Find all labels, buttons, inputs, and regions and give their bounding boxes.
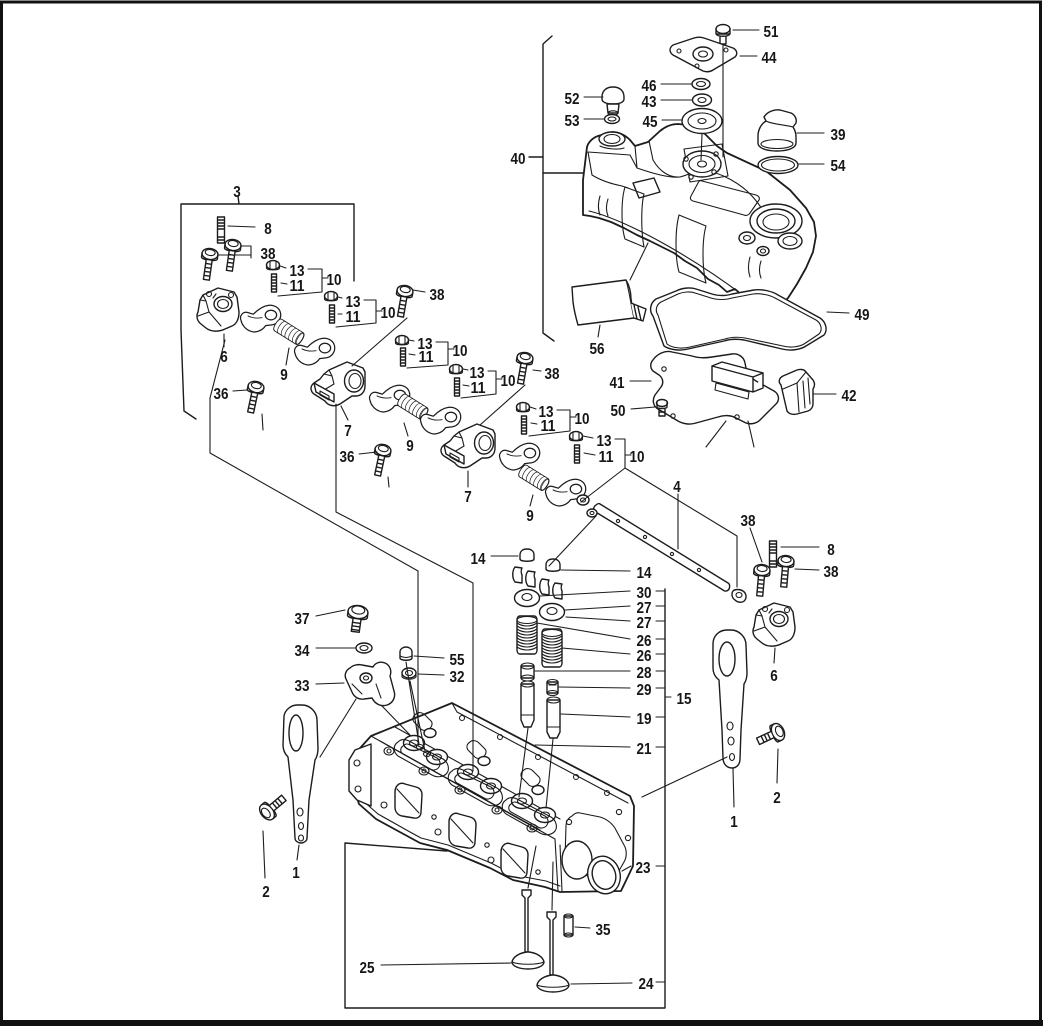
svg-text:29: 29: [637, 682, 652, 699]
svg-text:41: 41: [610, 375, 625, 392]
leader g6 to shaft: [581, 468, 737, 587]
svg-text:9: 9: [406, 438, 414, 455]
cover top-right filler ring: [750, 204, 802, 238]
valve pad ring a2: [427, 750, 448, 765]
valve guide 21: [521, 684, 534, 727]
svg-text:36: 36: [214, 386, 229, 403]
svg-text:9: 9: [280, 367, 288, 384]
valve pad ring b2: [481, 779, 502, 794]
leader 27 b: [566, 617, 630, 621]
leader 1 left: [297, 845, 299, 860]
svg-text:38: 38: [545, 366, 560, 383]
keepers 14 b: [540, 579, 562, 599]
svg-text:11: 11: [599, 449, 614, 466]
stem seal 29: [547, 682, 558, 693]
svg-text:38: 38: [261, 246, 276, 263]
leader 52: [584, 96, 603, 98]
assembly leader 7: [336, 404, 473, 771]
shaft guide line: [549, 516, 596, 566]
spring washer 27 a: [540, 604, 565, 621]
cover centre boss rings: [683, 151, 721, 177]
leader 9 c: [530, 495, 533, 506]
valve pad ring b1: [458, 765, 479, 780]
svg-text:43: 43: [642, 94, 657, 111]
bolt 38 d: [513, 351, 534, 385]
svg-text:34: 34: [295, 643, 310, 660]
head bottom wall line: [362, 800, 560, 886]
nut 13 g2: [325, 292, 338, 301]
leader 36 a: [233, 390, 263, 430]
deck pad a: [413, 713, 432, 731]
bolt 2 left: [257, 791, 290, 823]
svg-text:51: 51: [764, 24, 779, 41]
svg-text:56: 56: [590, 341, 605, 358]
svg-text:1: 1: [292, 865, 300, 882]
leader 54: [799, 163, 824, 165]
svg-text:1: 1: [730, 814, 738, 831]
deck pad c: [521, 769, 540, 787]
valve spring 26 b: [542, 629, 562, 667]
svg-text:55: 55: [450, 652, 465, 669]
spring retainer 30: [515, 590, 540, 607]
diaphragm 45: [682, 109, 722, 134]
svg-text:6: 6: [220, 349, 228, 366]
filler cap 39: [758, 110, 796, 151]
rocker arm G3 R: [546, 479, 586, 506]
svg-text:11: 11: [346, 309, 361, 326]
leader 8 right: [781, 546, 819, 548]
pedestal 7 b: [441, 424, 495, 468]
cover centre boss pad: [684, 144, 728, 182]
intake port 1: [395, 783, 422, 818]
valve 24: [547, 912, 556, 975]
rocker arm G2 R: [421, 407, 461, 434]
runner outline c: [502, 798, 556, 835]
valve spring 9 a: [272, 318, 306, 346]
cover front flutes: [599, 196, 609, 216]
svg-text:11: 11: [290, 278, 305, 295]
tube nozzle 56: [631, 303, 646, 321]
leader 25: [381, 963, 511, 965]
screw 11 g3: [401, 348, 406, 366]
leader 50: [631, 407, 655, 409]
svg-text:42: 42: [842, 388, 857, 405]
leader 42: [813, 393, 836, 395]
exhaust flange: [349, 744, 371, 806]
baffle box: [712, 362, 763, 392]
leader 14 b: [561, 570, 630, 571]
cylinder head body: [352, 703, 634, 892]
bracket 15: [345, 589, 665, 1008]
bolt 37: [345, 604, 368, 633]
leader 38 pair: [218, 246, 251, 258]
sealant tube 56: [572, 280, 634, 325]
leaders 55-32 to head: [406, 662, 425, 751]
svg-text:23: 23: [636, 860, 651, 877]
shaft end bush: [587, 509, 597, 517]
svg-text:10: 10: [381, 305, 396, 322]
valve cap 14 b: [546, 559, 560, 571]
bolt 38 f: [776, 555, 795, 588]
injector boss b: [478, 757, 490, 766]
valve 25: [522, 890, 531, 952]
o-ring 54: [758, 157, 798, 174]
deck pad b: [467, 741, 486, 759]
leader 53: [584, 118, 604, 120]
svg-text:28: 28: [637, 665, 652, 682]
svg-text:26: 26: [637, 648, 652, 665]
bolt 38 e: [752, 564, 771, 597]
leader 30: [540, 591, 630, 596]
leader 51-44 stack: [701, 44, 723, 160]
svg-text:45: 45: [643, 114, 658, 131]
svg-text:38: 38: [824, 564, 839, 581]
leader 56: [598, 325, 600, 337]
cap nut 55: [400, 647, 412, 660]
assembly leader 3: [210, 340, 418, 744]
bolt 36 a: [243, 380, 265, 414]
head front upper line: [353, 748, 371, 767]
svg-text:10: 10: [575, 411, 590, 428]
bolt 50: [657, 400, 668, 407]
svg-text:6: 6: [770, 668, 778, 685]
bolt 38 a: [198, 247, 218, 280]
leader 7 a: [341, 406, 348, 420]
washer 34: [356, 643, 372, 653]
screw 11 g5: [522, 416, 527, 434]
cover raised panel: [690, 181, 759, 216]
svg-text:2: 2: [773, 790, 781, 807]
svg-text:14: 14: [637, 565, 652, 582]
cover top deck line: [588, 141, 768, 222]
svg-text:54: 54: [831, 158, 846, 175]
cover skirt line: [588, 152, 744, 296]
breather plate 44: [670, 37, 737, 71]
svg-text:36: 36: [340, 449, 355, 466]
valve spring 26 a: [517, 616, 537, 654]
svg-text:25: 25: [360, 960, 375, 977]
svg-text:50: 50: [611, 403, 626, 420]
nut 13 g5: [517, 403, 530, 412]
svg-text:10: 10: [327, 272, 342, 289]
gasket 49: [651, 288, 826, 350]
leader 4: [677, 494, 679, 549]
shaft end cap: [732, 590, 746, 603]
leader 36 b: [359, 452, 389, 487]
bracket 40: [543, 36, 554, 341]
stud 8: [218, 217, 225, 243]
leader 21: [535, 745, 630, 747]
cover left deck ring shadow: [600, 146, 624, 149]
svg-text:35: 35: [596, 922, 611, 939]
head deck step: [380, 727, 560, 830]
valve pad ring a1: [404, 736, 425, 751]
leader 38 e: [750, 528, 762, 562]
leader 35: [575, 927, 590, 928]
svg-text:38: 38: [741, 513, 756, 530]
leader 45: [662, 119, 681, 121]
svg-text:33: 33: [295, 678, 310, 695]
bracket g5: [529, 407, 576, 436]
leader 46: [661, 83, 692, 85]
nut 13 g3: [396, 336, 409, 345]
baffle leaders: [706, 421, 754, 447]
leader 49: [827, 312, 849, 313]
valve spring 9 b: [396, 393, 430, 421]
head top near edge: [371, 736, 558, 891]
svg-text:49: 49: [855, 307, 870, 324]
svg-text:44: 44: [762, 50, 777, 67]
leader 29: [559, 687, 630, 688]
svg-text:11: 11: [471, 380, 486, 397]
svg-text:13: 13: [597, 433, 612, 450]
leader 32: [418, 674, 444, 675]
washer 43: [693, 94, 712, 106]
intake port 3: [501, 843, 528, 878]
leader 8 left: [228, 226, 255, 227]
svg-text:7: 7: [344, 423, 352, 440]
bolt 38 c: [393, 284, 414, 318]
baffle plate 41: [651, 351, 779, 424]
svg-text:11: 11: [419, 349, 434, 366]
head top rear edge: [452, 703, 628, 803]
bracket g1: [278, 266, 328, 296]
svg-text:32: 32: [450, 669, 465, 686]
svg-text:27: 27: [637, 615, 652, 632]
rocker arm G2 L: [370, 385, 410, 412]
svg-text:38: 38: [430, 287, 445, 304]
leader 33: [316, 683, 344, 684]
leader 26 a: [537, 623, 630, 639]
cover left cap boss ring: [599, 132, 625, 146]
bolt 38 b: [221, 238, 241, 271]
eye slot right: [719, 642, 735, 676]
water jacket circle: [562, 841, 592, 879]
svg-text:10: 10: [630, 449, 645, 466]
screw 11 g2: [330, 305, 335, 323]
oil cap 52: [602, 87, 624, 104]
svg-text:2: 2: [262, 884, 270, 901]
nut 32: [402, 668, 416, 678]
screw 11 g4: [455, 378, 460, 396]
svg-text:14: 14: [471, 551, 486, 568]
screw 11 g6: [575, 445, 580, 463]
leader 26 b: [562, 648, 630, 654]
leader 7 b: [467, 471, 469, 487]
leader 37: [316, 610, 345, 616]
lifting eye 1 left: [283, 705, 318, 843]
valve pad ring c2: [535, 808, 556, 823]
leader 28: [535, 670, 630, 672]
svg-text:19: 19: [637, 711, 652, 728]
seal ring 23: [583, 852, 625, 898]
shaft end ring: [577, 495, 589, 505]
deck hole row near: [384, 747, 394, 755]
valve leaders: [528, 846, 553, 910]
eye-head diagonal right: [642, 757, 727, 797]
valve pad ring c1: [512, 794, 533, 809]
leader 19: [561, 714, 630, 717]
end face holes: [566, 819, 571, 824]
svg-text:21: 21: [637, 741, 652, 758]
bolt 36 b: [370, 443, 392, 477]
bracket g2: [336, 297, 382, 327]
bracket g4: [461, 369, 502, 398]
svg-text:40: 40: [511, 151, 526, 168]
leader 43: [661, 99, 692, 101]
bolt 2 right: [754, 721, 787, 749]
svg-text:37: 37: [295, 611, 310, 628]
svg-text:7: 7: [464, 489, 472, 506]
deck hole row far: [460, 716, 465, 721]
screw 11 g1: [272, 274, 277, 292]
valve cap 28: [521, 666, 534, 678]
svg-text:9: 9: [526, 508, 534, 525]
o-ring 53: [605, 115, 620, 124]
leader 14 a: [491, 555, 518, 557]
rocker arm G3 L: [500, 443, 540, 470]
front face bosses: [381, 802, 387, 808]
svg-text:11: 11: [541, 418, 556, 435]
nut 13 g6: [570, 432, 583, 441]
leader 39: [797, 132, 824, 134]
injector boss a: [424, 729, 436, 738]
leader 34: [316, 647, 355, 649]
bracket 3: [181, 196, 354, 419]
leader 40: [529, 157, 584, 173]
clip 42: [779, 369, 814, 414]
leader 23: [622, 866, 631, 871]
cover gasket alignment line: [630, 243, 648, 280]
valve guide 19: [547, 700, 560, 738]
runner outline a: [394, 740, 448, 777]
keepers 14 a: [513, 567, 535, 587]
rocker arm G1 L: [241, 305, 281, 332]
eye holes right: [727, 722, 733, 730]
leader 38 f: [795, 569, 819, 570]
guide leaders: [519, 728, 553, 808]
svg-text:10: 10: [501, 373, 516, 390]
eye holes left: [297, 808, 303, 816]
nut 13 g1: [267, 261, 280, 270]
rocker arm G1 R: [295, 338, 335, 365]
cover spout: [633, 178, 660, 198]
end face gasket: [565, 813, 626, 882]
svg-text:8: 8: [264, 221, 272, 238]
svg-text:4: 4: [673, 479, 681, 496]
leader 6 left: [223, 334, 225, 347]
right end face: [560, 845, 562, 891]
cover small ring: [778, 233, 802, 249]
leader 27 a: [565, 606, 630, 610]
leader 2 left: [263, 831, 265, 878]
svg-text:24: 24: [639, 976, 654, 993]
pedestal 7 a: [311, 362, 365, 406]
leader 41: [630, 380, 651, 382]
stand 6 right: [753, 603, 795, 646]
leader 51: [733, 29, 759, 31]
leaders 33 to head: [320, 699, 410, 757]
lifting eye 1 right: [713, 630, 747, 768]
eye slot left: [289, 715, 303, 751]
valve spring 9 c: [517, 464, 551, 492]
leader 55: [414, 656, 444, 658]
leader 6 right: [774, 648, 775, 663]
leader 44: [740, 55, 757, 57]
rocker shaft 4: [594, 504, 730, 592]
valve cap 14 a: [520, 549, 534, 561]
leader 1 right: [733, 769, 734, 807]
intake port 2: [449, 813, 476, 848]
svg-text:46: 46: [642, 78, 657, 95]
cover boss circles: [739, 232, 755, 244]
bracket g3: [407, 340, 454, 368]
leader 38 d: [480, 370, 541, 425]
svg-text:10: 10: [453, 343, 468, 360]
leader 38 c: [352, 290, 425, 366]
runner outline b: [448, 769, 502, 806]
stud 8 right: [770, 541, 777, 567]
svg-text:15: 15: [677, 691, 692, 708]
dowel 35: [564, 916, 573, 935]
svg-text:3: 3: [233, 184, 241, 201]
bolt 51: [716, 25, 730, 34]
svg-text:39: 39: [831, 127, 846, 144]
leader 2 right: [777, 749, 778, 783]
nut 13 g4: [450, 365, 463, 374]
washer 46: [692, 79, 710, 90]
injector boss c: [532, 786, 544, 795]
bracket g6: [583, 436, 631, 468]
leader 9 b: [404, 423, 408, 436]
svg-text:53: 53: [565, 113, 580, 130]
bracket ticks: [656, 591, 671, 982]
stand 6 left: [197, 288, 239, 331]
svg-text:8: 8: [827, 542, 835, 559]
leader 9 a: [286, 348, 289, 365]
valve cover 40 body: [583, 124, 816, 309]
svg-text:52: 52: [565, 91, 580, 108]
leader 24: [571, 983, 632, 984]
support 33: [345, 662, 394, 705]
